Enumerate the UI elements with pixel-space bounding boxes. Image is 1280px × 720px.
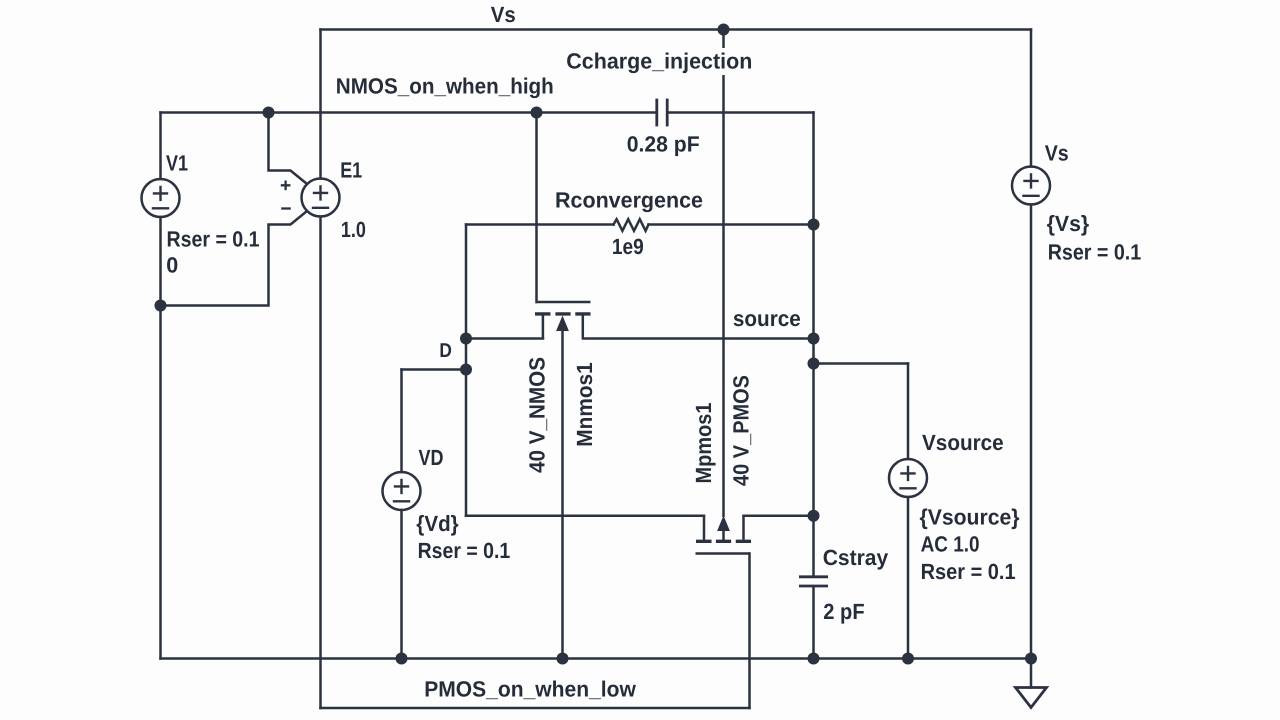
svg-text:VD: VD <box>419 445 444 470</box>
svg-text:Ccharge_injection: Ccharge_injection <box>566 48 752 73</box>
svg-text:V1: V1 <box>166 150 188 175</box>
svg-text:1.0: 1.0 <box>341 217 366 242</box>
svg-text:Rser = 0.1: Rser = 0.1 <box>418 538 511 563</box>
svg-text:Rser = 0.1: Rser = 0.1 <box>921 559 1016 584</box>
svg-text:Rser = 0.1: Rser = 0.1 <box>167 227 260 252</box>
svg-text:2 pF: 2 pF <box>823 599 864 624</box>
svg-text:AC 1.0: AC 1.0 <box>921 532 980 557</box>
svg-text:source: source <box>733 306 801 331</box>
svg-text:{Vd}: {Vd} <box>416 511 459 536</box>
svg-text:NMOS_on_when_high: NMOS_on_when_high <box>336 73 554 98</box>
svg-text:Rser = 0.1: Rser = 0.1 <box>1048 240 1142 265</box>
svg-text:0.28 pF: 0.28 pF <box>627 132 700 157</box>
svg-text:1e9: 1e9 <box>612 234 644 259</box>
svg-text:E1: E1 <box>340 158 362 183</box>
svg-text:40 V_PMOS: 40 V_PMOS <box>729 375 754 486</box>
svg-text:40 V_NMOS: 40 V_NMOS <box>525 357 550 473</box>
svg-text:D: D <box>439 340 452 362</box>
svg-text:Rconvergence: Rconvergence <box>555 188 703 213</box>
svg-text:Vsource: Vsource <box>922 430 1004 455</box>
svg-text:Mnmos1: Mnmos1 <box>572 362 597 446</box>
svg-text:{Vsource}: {Vsource} <box>920 505 1020 530</box>
svg-text:Vs: Vs <box>1045 141 1069 166</box>
svg-text:{Vs}: {Vs} <box>1047 211 1090 236</box>
svg-text:Vs: Vs <box>491 2 516 27</box>
svg-text:PMOS_on_when_low: PMOS_on_when_low <box>424 677 637 702</box>
svg-text:Mpmos1: Mpmos1 <box>691 403 716 484</box>
svg-text:Cstray: Cstray <box>823 545 889 570</box>
svg-text:0: 0 <box>166 253 178 278</box>
